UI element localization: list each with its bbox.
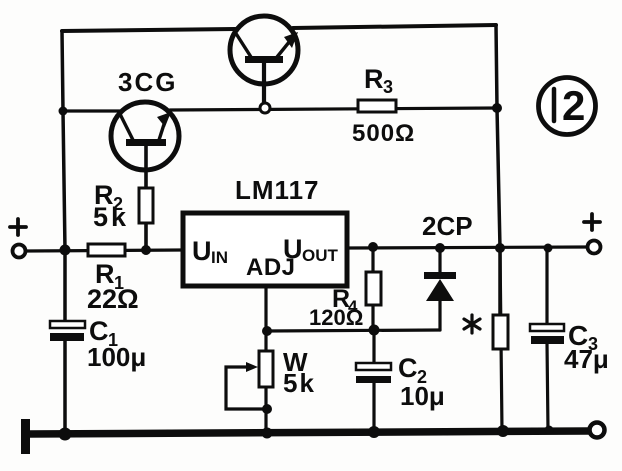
svg-text:IN: IN [211,248,228,267]
svg-text:OUT: OUT [302,246,339,265]
svg-text:ADJ: ADJ [246,254,296,281]
svg-text:C: C [398,353,418,383]
svg-text:R: R [364,64,384,94]
svg-text:3CG: 3CG [118,67,177,97]
svg-text:10μ: 10μ [400,381,445,411]
svg-text:5k: 5k [283,368,316,398]
svg-text:2CP: 2CP [422,211,473,241]
svg-text:500Ω: 500Ω [352,120,415,147]
svg-text:120Ω: 120Ω [309,305,363,330]
svg-text:100μ: 100μ [87,342,146,372]
svg-text:5k: 5k [93,202,129,232]
svg-text:47μ: 47μ [564,344,609,374]
svg-text:2: 2 [562,82,585,129]
svg-text:LM117: LM117 [235,175,320,205]
svg-text:3: 3 [383,77,393,97]
svg-text:U: U [192,236,212,266]
svg-text:22Ω: 22Ω [87,284,139,314]
